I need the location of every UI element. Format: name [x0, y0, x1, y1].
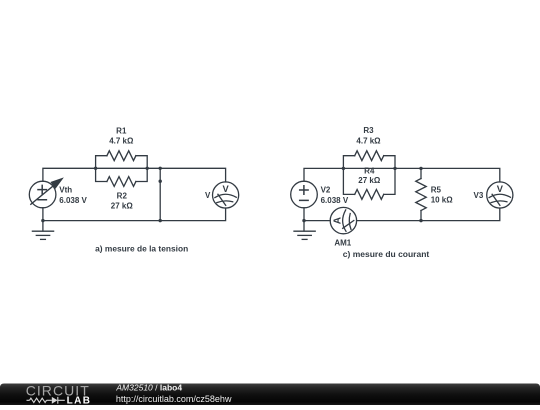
- svg-text:4.7 kΩ: 4.7 kΩ: [109, 137, 134, 146]
- svg-text:R4: R4: [364, 167, 375, 176]
- svg-text:V: V: [205, 191, 211, 200]
- svg-text:Vth: Vth: [59, 186, 72, 195]
- svg-text:27 kΩ: 27 kΩ: [111, 202, 134, 211]
- svg-text:4.7 kΩ: 4.7 kΩ: [356, 137, 381, 146]
- svg-text:10 kΩ: 10 kΩ: [431, 196, 454, 205]
- svg-text:R2: R2: [117, 191, 128, 200]
- svg-text:AM32510 / labo4: AM32510 / labo4: [115, 383, 182, 393]
- svg-text:http://circuitlab.com/cz58ehw: http://circuitlab.com/cz58ehw: [116, 394, 232, 404]
- svg-text:A: A: [333, 217, 344, 224]
- svg-text:6.038 V: 6.038 V: [321, 196, 349, 205]
- svg-text:a) mesure de la tension: a) mesure de la tension: [95, 243, 188, 253]
- svg-text:c) mesure du courant: c) mesure du courant: [343, 249, 430, 259]
- svg-text:V2: V2: [321, 186, 331, 195]
- svg-text:R1: R1: [116, 126, 127, 135]
- svg-text:V: V: [497, 184, 504, 194]
- svg-text:V: V: [222, 184, 229, 194]
- svg-text:AM1: AM1: [334, 239, 351, 248]
- svg-text:6.038 V: 6.038 V: [59, 196, 87, 205]
- svg-text:R3: R3: [363, 126, 374, 135]
- svg-text:R5: R5: [431, 185, 442, 194]
- svg-text:V3: V3: [474, 191, 484, 200]
- svg-text:LAB: LAB: [67, 396, 92, 405]
- svg-text:27 kΩ: 27 kΩ: [358, 176, 381, 185]
